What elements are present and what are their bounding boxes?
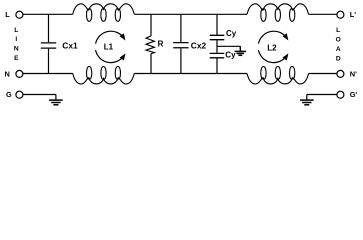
svg-text:L2: L2 bbox=[267, 44, 277, 53]
svg-text:G: G bbox=[6, 90, 12, 99]
svg-text:O: O bbox=[336, 36, 341, 43]
svg-text:I: I bbox=[15, 36, 17, 43]
svg-text:Cx2: Cx2 bbox=[191, 40, 207, 50]
svg-text:N': N' bbox=[350, 69, 357, 78]
svg-text:D: D bbox=[336, 55, 341, 62]
svg-text:L': L' bbox=[350, 10, 357, 19]
svg-text:E: E bbox=[14, 55, 19, 62]
svg-text:R: R bbox=[158, 39, 164, 48]
svg-text:L: L bbox=[14, 27, 18, 34]
svg-text:L: L bbox=[336, 27, 340, 34]
svg-text:Cy: Cy bbox=[225, 50, 236, 59]
svg-text:N: N bbox=[14, 46, 19, 53]
svg-text:G': G' bbox=[350, 90, 358, 99]
svg-text:A: A bbox=[336, 46, 341, 53]
svg-text:Cx1: Cx1 bbox=[62, 40, 78, 50]
svg-text:N: N bbox=[5, 70, 10, 79]
svg-text:L1: L1 bbox=[104, 43, 114, 52]
svg-text:Cy: Cy bbox=[226, 29, 237, 38]
svg-text:L: L bbox=[5, 10, 10, 19]
